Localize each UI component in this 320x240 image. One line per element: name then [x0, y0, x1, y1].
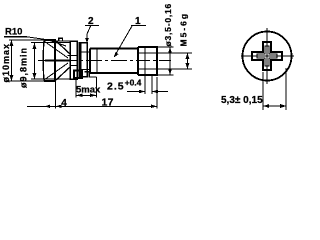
extension line 5max right — [96, 77, 98, 98]
washer3 hole edge upper — [79, 51, 90, 53]
thread minor line bottom — [138, 68, 157, 70]
arrow 4 — [45, 105, 50, 108]
arrow dia3,5 top — [168, 47, 172, 54]
arrow dia9,8min top — [33, 43, 37, 49]
extension line 5,3 left — [262, 72, 264, 110]
end view vertical centerline — [266, 28, 268, 84]
arrow 17 right — [151, 105, 157, 109]
washer3 hole edge lower — [79, 68, 90, 70]
recess cross diagonal lower — [44, 63, 68, 80]
svg-text:ø10max: ø10max — [1, 43, 11, 83]
extension line washer top — [31, 42, 70, 44]
head cone upper — [55, 40, 70, 54]
extension line washer bottom — [31, 78, 70, 80]
arrow 5max left — [76, 94, 83, 98]
dimension line 2.5 right tail — [152, 91, 168, 93]
arrow 2.5 right — [152, 90, 158, 94]
svg-text:4: 4 — [61, 98, 67, 109]
spring washer — [56, 38, 70, 41]
leader 2 line — [87, 25, 91, 40]
svg-text:R10: R10 — [5, 27, 22, 38]
arrow 5,3 right — [280, 104, 286, 108]
centerline main axis — [38, 60, 171, 62]
cross recess inner outline — [257, 46, 277, 66]
extension line minor top — [157, 52, 192, 54]
dimension line dia9,8min — [34, 43, 36, 79]
dimension line 17 — [56, 105, 157, 107]
shank outline — [90, 49, 138, 74]
svg-text:5max: 5max — [76, 85, 101, 96]
leader R10 line — [27, 37, 66, 46]
dimension line 5,3 — [263, 105, 286, 107]
arrow 17 left — [56, 105, 62, 109]
washer 2 outline — [70, 41, 77, 79]
extension line minor bottom — [157, 68, 192, 70]
washer 3 inner edge — [80, 43, 82, 77]
leader R10 underline — [4, 36, 27, 38]
recess slot thick line — [45, 60, 71, 62]
svg-text:M5-6g: M5-6g — [179, 12, 189, 47]
dimension line 2.5 left tail — [127, 91, 145, 93]
extension line head bottom — [4, 80, 44, 82]
end view circle — [243, 32, 292, 81]
washer2 split line upper — [68, 55, 79, 57]
arrow dia3,5 bottom — [168, 69, 172, 76]
extension line 5max left — [75, 78, 77, 98]
thread minor line top — [138, 52, 157, 54]
svg-text:ø9,8min: ø9,8min — [19, 47, 29, 88]
leader 1 arrow — [114, 52, 119, 57]
extension line 17 left — [55, 82, 57, 109]
extension line 2.5 left — [144, 76, 146, 94]
dimension line dia3,5 — [169, 47, 171, 75]
dimension line dia10max — [11, 40, 13, 81]
extension line 17 right — [156, 77, 158, 109]
shank bottom step — [85, 72, 97, 77]
cross recess outer outline — [252, 42, 282, 70]
washer split end tab — [74, 71, 82, 79]
extension line 5,3 right — [285, 68, 287, 110]
svg-text:5,3± 0,15: 5,3± 0,15 — [221, 95, 263, 106]
shank right face — [137, 47, 139, 75]
arrow dia9,8min bottom — [33, 73, 37, 79]
arrow dia10max top — [10, 40, 14, 46]
extension line 2.5 right — [151, 76, 153, 94]
svg-text:ø3,5-0,16: ø3,5-0,16 — [163, 3, 173, 47]
dimension line 4 — [27, 105, 56, 107]
thread start line on shank — [96, 49, 98, 74]
dimension line M5 — [187, 53, 189, 69]
extension line thread bottom — [157, 74, 174, 76]
washer 3 outline — [79, 43, 87, 77]
arrow 2.5 left — [139, 90, 145, 94]
svg-text:17: 17 — [102, 97, 114, 109]
arrow M5 bottom — [186, 63, 190, 69]
leader 2 arrow — [85, 38, 89, 43]
arrow dia10max bottom — [10, 75, 14, 81]
washer2 split line lower — [70, 65, 78, 67]
leader 1 line — [115, 26, 133, 56]
head spherical face arc R10 — [42, 40, 45, 81]
extension line head top — [9, 39, 44, 41]
arrow 5,3 left — [263, 104, 269, 108]
recess cross diagonal upper — [44, 41, 68, 58]
dimension line 5max — [76, 94, 97, 96]
svg-text:2.5+0.4: 2.5+0.4 — [107, 77, 142, 92]
head outline — [44, 40, 55, 81]
end view horizontal centerline — [241, 55, 294, 57]
label 1 underline — [131, 25, 146, 27]
label 2 underline — [85, 25, 99, 27]
extension line thread top — [157, 46, 174, 48]
arrow M5 top — [186, 53, 190, 59]
thread end outline — [138, 47, 157, 75]
thread start line — [144, 47, 146, 75]
head cone lower — [55, 67, 70, 81]
arrow 5max right — [90, 94, 97, 98]
